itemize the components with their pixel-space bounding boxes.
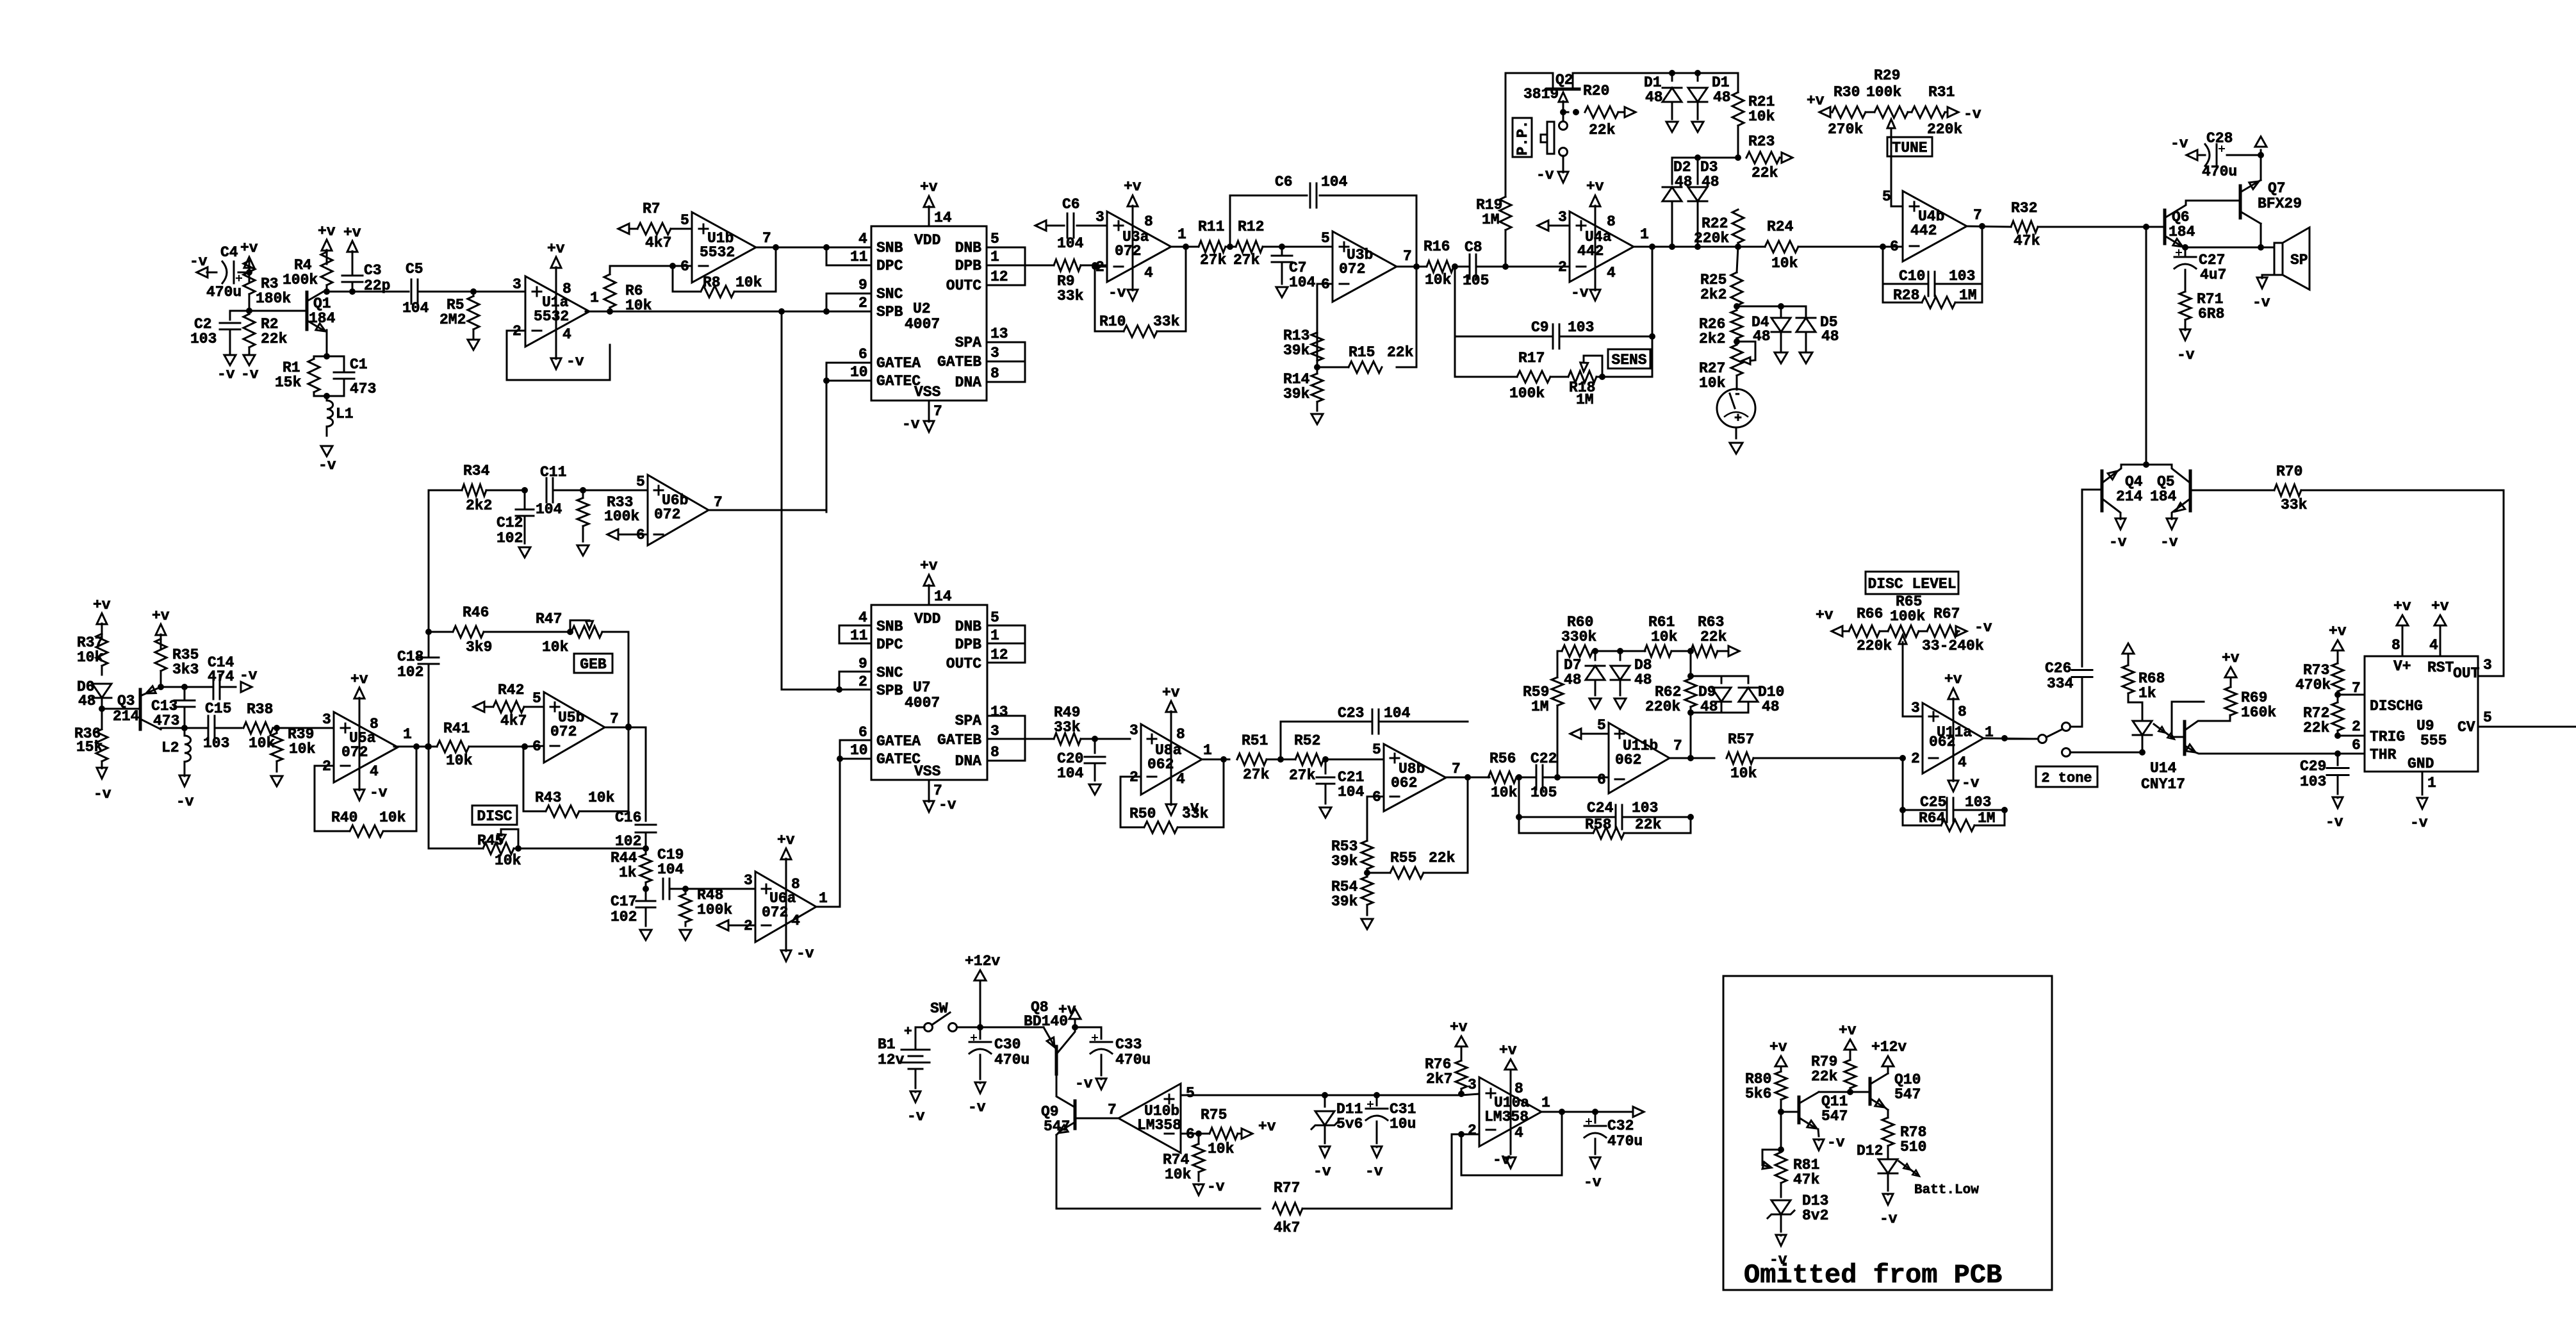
wire SPB down to U7: [781, 311, 783, 690]
power -v below R2: [241, 355, 259, 383]
power arrow below D5: [1800, 352, 1812, 363]
resistor R10: [1099, 313, 1180, 337]
capacitor C12: [496, 490, 534, 547]
svg-text:R41: R41: [443, 720, 470, 737]
svg-text:U2: U2: [913, 301, 931, 317]
svg-text:R34: R34: [463, 463, 490, 479]
potentiometer R45: [429, 829, 646, 869]
svg-text:4: 4: [1607, 265, 1616, 281]
wire R15 to fb: [1397, 267, 1416, 367]
svg-text:+v: +v: [777, 832, 795, 848]
resistor R74: [1163, 1134, 1204, 1183]
off-page arrow at C6: [1035, 220, 1046, 231]
wire U2 GATEA-GATEC bracket: [823, 363, 871, 384]
capacitor C1: [334, 356, 376, 397]
wire U2 DNB-OUTC bracket: [987, 247, 1025, 285]
node R23 row: [1735, 154, 1741, 161]
resistor R11: [1198, 219, 1227, 269]
ground below C7: [1276, 287, 1288, 297]
capacitor C26: [2045, 660, 2092, 723]
svg-text:R28: R28: [1893, 287, 1919, 304]
svg-text:39k: 39k: [1331, 853, 1358, 870]
node D6-R36: [99, 706, 105, 712]
power +v above R35: [152, 608, 170, 649]
svg-text:-v: -v: [1075, 1075, 1093, 1092]
svg-text:C24: C24: [1587, 800, 1614, 816]
power -v below U3a: [1108, 282, 1138, 301]
svg-text:270k: 270k: [1828, 121, 1863, 138]
meter M1: [1717, 387, 1755, 427]
wire pin6 stub: [2338, 737, 2365, 754]
resistor R41: [437, 720, 528, 769]
svg-text:7: 7: [610, 711, 619, 727]
capacitor C3: [342, 262, 390, 294]
svg-text:547: 547: [1044, 1118, 1070, 1135]
power +v above pin8: [2393, 598, 2411, 625]
svg-text:8: 8: [1958, 704, 1967, 720]
resistor R58: [1585, 816, 1691, 839]
svg-text:C5: C5: [406, 261, 423, 277]
svg-text:104: 104: [657, 861, 684, 878]
wire C11 to U6b: [583, 490, 648, 492]
svg-text:6: 6: [680, 258, 689, 275]
svg-text:48: 48: [1702, 174, 1719, 190]
svg-text:10u: 10u: [1390, 1116, 1416, 1132]
svg-text:CV: CV: [2457, 719, 2475, 736]
resistor R44: [611, 848, 652, 889]
svg-text:SPA: SPA: [955, 335, 982, 351]
svg-text:48: 48: [1762, 699, 1780, 715]
wire fb right up: [1981, 226, 1983, 302]
transistor Q8: [1024, 999, 1075, 1074]
wire U3b pin6 stub: [1317, 284, 1333, 367]
svg-text:105: 105: [1530, 784, 1557, 801]
svg-text:470u: 470u: [994, 1052, 1030, 1068]
label U14 CNY17: [2141, 760, 2185, 793]
power +12v above Q10: [1871, 1039, 1907, 1073]
svg-text:2: 2: [858, 674, 867, 690]
wire Q8 collector down: [1056, 1074, 1058, 1092]
wire C8 to U4a pin2: [1502, 263, 1570, 270]
resistor R23: [1746, 133, 1782, 181]
svg-text:+v: +v: [350, 671, 368, 688]
svg-text:-v: -v: [1365, 1163, 1383, 1180]
svg-text:U14: U14: [2150, 760, 2177, 777]
wire C9 down to R18 row: [1652, 336, 1653, 377]
svg-text:+v: +v: [1586, 178, 1604, 195]
resistor R9: [1054, 260, 1107, 304]
svg-text:7: 7: [933, 403, 942, 420]
svg-text:7: 7: [1108, 1102, 1117, 1118]
resistor R55: [1367, 777, 1468, 879]
wire U7 SNB-DPC bracket: [839, 625, 871, 643]
svg-text:072: 072: [341, 744, 368, 761]
svg-text:SW: SW: [930, 1000, 948, 1017]
svg-text:DPC: DPC: [876, 258, 903, 274]
wire U1a feedback: [507, 331, 610, 380]
capacitor C7: [1272, 247, 1316, 291]
svg-text:Q7: Q7: [2268, 180, 2286, 197]
svg-text:DNA: DNA: [955, 374, 982, 391]
svg-text:6: 6: [2352, 737, 2361, 754]
svg-text:R64: R64: [1919, 810, 1946, 827]
svg-text:180k: 180k: [256, 290, 291, 307]
svg-text:473: 473: [153, 713, 179, 729]
node Q4Q5 base: [2143, 461, 2149, 468]
wire pushbutton to -v: [1563, 156, 1564, 169]
wire C6 fb up: [1230, 195, 1416, 247]
svg-text:100k: 100k: [283, 272, 318, 288]
svg-text:R23: R23: [1748, 133, 1775, 150]
svg-text:3: 3: [744, 872, 753, 889]
op-amp U8b: [1372, 741, 1461, 811]
resistor R30: [1828, 84, 1866, 138]
svg-text:-v: -v: [2170, 135, 2188, 152]
resistor R61: [1620, 614, 1694, 657]
ground below C17: [640, 930, 652, 940]
svg-text:15k: 15k: [76, 739, 103, 756]
svg-text:-v: -v: [2252, 294, 2270, 311]
svg-text:5k6: 5k6: [1745, 1086, 1771, 1102]
wire collector row: [327, 291, 409, 293]
svg-text:184: 184: [309, 310, 336, 327]
svg-text:15k: 15k: [275, 374, 302, 391]
resistor R40: [331, 809, 406, 837]
svg-text:+v: +v: [343, 224, 361, 241]
svg-text:R67: R67: [1933, 606, 1960, 622]
svg-text:7: 7: [762, 230, 771, 247]
resistor R22: [1694, 210, 1744, 247]
ground below R54: [1361, 919, 1373, 929]
svg-text:48: 48: [1645, 89, 1663, 106]
power -v below B1: [907, 1091, 925, 1125]
label Batt.Low: [1914, 1183, 1979, 1198]
svg-text:33-240k: 33-240k: [1922, 638, 1984, 654]
svg-text:R55: R55: [1390, 850, 1416, 866]
svg-text:DNB: DNB: [955, 618, 982, 635]
svg-text:474: 474: [208, 668, 234, 685]
svg-text:-v: -v: [907, 1108, 925, 1125]
wire Q6 collector to Q7 base: [2186, 200, 2240, 202]
capacitor C21: [1317, 759, 1365, 804]
svg-text:39k: 39k: [1283, 342, 1310, 359]
wire Q4 base left: [2082, 489, 2102, 491]
svg-text:10k: 10k: [289, 741, 316, 757]
svg-text:13: 13: [990, 704, 1008, 720]
resistor R12: [1233, 219, 1282, 269]
IC U7 right pin labels: [937, 609, 1008, 770]
node U10b pin6: [1181, 1130, 1209, 1137]
svg-text:27k: 27k: [1200, 252, 1227, 269]
off-page arrow U11b pin5: [1570, 729, 1609, 739]
wire R38 to U5a pin3: [277, 727, 334, 729]
svg-text:22k: 22k: [1589, 122, 1616, 138]
svg-text:48: 48: [1634, 672, 1652, 688]
svg-text:3k3: 3k3: [172, 661, 199, 678]
svg-text:1: 1: [990, 627, 999, 644]
svg-text:-v: -v: [1964, 106, 1981, 122]
resistor R75: [1201, 1107, 1242, 1157]
capacitor C20: [1057, 739, 1105, 782]
svg-text:22k: 22k: [1700, 629, 1727, 645]
svg-text:+v: +v: [1816, 607, 1834, 624]
svg-text:C32: C32: [1607, 1118, 1634, 1134]
svg-text:+v: +v: [1258, 1118, 1276, 1135]
diode D9: [1698, 676, 1731, 715]
resistor R68: [2122, 665, 2165, 702]
node R44 bottom: [643, 886, 649, 892]
svg-text:THR: THR: [2370, 747, 2397, 763]
potentiometer R29: [1866, 67, 1908, 203]
svg-text:+v: +v: [240, 240, 258, 256]
svg-text:R56: R56: [1489, 750, 1516, 767]
ground below D8: [1614, 699, 1626, 709]
svg-text:-v: -v: [1974, 619, 1992, 636]
svg-text:470u: 470u: [1115, 1052, 1151, 1068]
resistor R79: [1811, 1050, 1856, 1092]
svg-text:103: 103: [1632, 800, 1658, 816]
resistor R43: [535, 790, 615, 817]
svg-text:4007: 4007: [905, 695, 940, 711]
resistor R31: [1908, 84, 1962, 138]
svg-text:R51: R51: [1242, 732, 1268, 749]
svg-text:3: 3: [1558, 209, 1567, 226]
svg-text:8: 8: [2391, 637, 2400, 654]
resistor R77: [1273, 1134, 1479, 1236]
svg-text:27k: 27k: [1243, 766, 1270, 783]
svg-text:103: 103: [1568, 319, 1594, 336]
svg-text:-v: -v: [1769, 1252, 1787, 1268]
svg-text:6R8: 6R8: [2198, 306, 2224, 322]
svg-text:104: 104: [402, 300, 429, 317]
svg-text:R30: R30: [1834, 84, 1860, 101]
svg-text:1M: 1M: [1978, 810, 1996, 827]
power +v above U3a: [1124, 178, 1142, 286]
svg-text:5532: 5532: [534, 308, 569, 325]
wire L1 to -v: [326, 427, 328, 436]
power +v above U8a: [1162, 684, 1180, 801]
svg-text:12: 12: [990, 269, 1008, 285]
off-page arrow output: [1633, 1107, 1644, 1117]
svg-text:C3: C3: [364, 262, 382, 279]
svg-text:-v: -v: [94, 786, 111, 802]
svg-text:220k: 220k: [1857, 638, 1892, 654]
resistor R16: [1423, 238, 1458, 288]
boxed label SENS: [1608, 349, 1650, 368]
power -v below speaker: [2252, 277, 2270, 311]
wire U7 GATEB to R49: [987, 738, 1054, 740]
svg-text:5: 5: [990, 231, 999, 247]
power -v below D13: [1769, 1235, 1787, 1268]
svg-text:C9: C9: [1531, 319, 1549, 336]
wire U4b out: [1967, 223, 2011, 229]
svg-text:R66: R66: [1857, 606, 1883, 622]
svg-text:C23: C23: [1338, 705, 1364, 722]
svg-text:R12: R12: [1238, 219, 1264, 235]
svg-text:1: 1: [1177, 226, 1186, 243]
resistor R71: [2179, 275, 2224, 329]
svg-text:10k: 10k: [542, 639, 569, 656]
wire DPC link: [826, 247, 871, 265]
resistor R8: [701, 274, 762, 297]
wire U1a out to SPB row: [610, 308, 839, 315]
svg-text:R40: R40: [331, 809, 357, 826]
power -v below C2: [217, 355, 236, 383]
svg-text:3: 3: [1911, 700, 1920, 716]
svg-text:10k: 10k: [446, 752, 473, 769]
potentiometer R47: [536, 611, 628, 656]
wire U5a out: [394, 743, 437, 750]
off-page arrow U6b pin6: [607, 529, 648, 540]
power +v above U5a: [350, 671, 368, 786]
power -v below L1: [318, 446, 336, 474]
svg-text:104: 104: [1289, 274, 1316, 291]
power arrow below D4: [1775, 352, 1787, 363]
svg-text:6: 6: [532, 738, 541, 755]
wire Q2 rail left: [1505, 73, 1553, 89]
svg-text:R38: R38: [247, 701, 273, 718]
power +v above U2: [920, 179, 938, 220]
svg-text:4: 4: [1144, 265, 1153, 281]
resistor R78: [1882, 1118, 1926, 1157]
power -v below R74: [1194, 1178, 1225, 1195]
box omitted from PCB: [1723, 976, 2052, 1290]
svg-text:10k: 10k: [495, 852, 521, 869]
svg-text:GND: GND: [2408, 756, 2434, 772]
svg-text:5: 5: [532, 690, 541, 707]
resistor R13: [1283, 327, 1323, 361]
svg-text:+v: +v: [2329, 623, 2347, 640]
capacitor C6 feedback: [1275, 174, 1348, 208]
ground below R33: [577, 545, 589, 556]
power arrow above C28 node: [2255, 136, 2267, 155]
off-page arrow U4a pin3: [1538, 220, 1570, 231]
svg-text:10k: 10k: [1651, 629, 1678, 645]
power -v below U6a: [781, 942, 814, 962]
resistor R52: [1289, 732, 1384, 784]
svg-text:10k: 10k: [1491, 784, 1518, 801]
svg-text:470k: 470k: [2295, 677, 2331, 693]
transistor Q2 3819: [1523, 72, 1579, 112]
svg-text:10k: 10k: [1165, 1166, 1192, 1183]
power -v below D11: [1313, 1146, 1331, 1180]
svg-text:442: 442: [1910, 222, 1937, 239]
svg-text:4: 4: [791, 913, 800, 929]
resistor R33: [577, 490, 639, 541]
wire pin2 stub: [2338, 718, 2365, 736]
wire U7 SPB row: [782, 689, 839, 691]
svg-text:C6: C6: [1062, 196, 1080, 213]
resistor R39: [271, 726, 316, 772]
svg-text:-v: -v: [176, 793, 194, 810]
svg-text:C33: C33: [1115, 1036, 1142, 1053]
svg-text:3: 3: [513, 276, 521, 293]
power -v below C33: [1075, 1075, 1106, 1092]
svg-text:10k: 10k: [1771, 255, 1798, 272]
svg-text:OUT: OUT: [2453, 665, 2480, 682]
svg-text:48: 48: [1821, 328, 1839, 345]
svg-text:8: 8: [562, 281, 571, 297]
svg-text:47k: 47k: [2014, 233, 2040, 249]
resistor R56: [1488, 750, 1522, 801]
potentiometer R27: [1699, 342, 1755, 392]
svg-text:2: 2: [1558, 259, 1567, 276]
wire U4a out row: [1634, 244, 1741, 250]
svg-text:-v: -v: [1584, 1174, 1602, 1191]
resistor R35: [155, 634, 199, 687]
wire U5b out: [605, 724, 646, 731]
svg-text:C26: C26: [2045, 660, 2071, 677]
node R38-R39: [274, 725, 280, 731]
svg-text:+: +: [904, 1025, 912, 1039]
svg-text:3: 3: [322, 711, 331, 728]
transistor Q4: [2102, 465, 2143, 517]
svg-text:1: 1: [819, 890, 828, 907]
op-amp U5b: [532, 690, 619, 763]
wire C16 column: [645, 727, 647, 821]
svg-text:9: 9: [858, 277, 867, 293]
IC U9 pin 1 GND: [2422, 772, 2436, 795]
svg-text:2: 2: [1911, 750, 1920, 767]
power +12v above C30: [965, 953, 1000, 1027]
resistor R76: [1425, 1046, 1467, 1093]
svg-text:-v: -v: [1108, 285, 1126, 301]
wire R40 loop: [315, 743, 420, 831]
diode D1 right: [1688, 73, 1731, 119]
svg-text:DISCHG: DISCHG: [2370, 698, 2423, 715]
resistor R48: [680, 887, 732, 926]
power -v below U1a: [551, 347, 584, 370]
capacitor C18: [397, 649, 439, 681]
svg-text:4: 4: [1514, 1125, 1523, 1141]
svg-text:R58: R58: [1585, 816, 1611, 833]
svg-text:33k: 33k: [1057, 288, 1084, 304]
svg-text:5: 5: [2483, 709, 2492, 726]
wire U5b fb: [521, 727, 628, 811]
svg-text:12: 12: [990, 647, 1008, 663]
resistor R80: [1745, 1071, 1787, 1115]
svg-text:10k: 10k: [249, 735, 275, 752]
svg-text:TRIG: TRIG: [2370, 729, 2405, 745]
IC U7 center labels: [905, 679, 940, 711]
svg-text:22k: 22k: [1752, 165, 1778, 181]
svg-text:102: 102: [615, 833, 641, 850]
power +v above R76: [1450, 1019, 1468, 1046]
off-page arrow after R23: [1782, 153, 1793, 163]
svg-text:547: 547: [1821, 1108, 1848, 1125]
power -v below U2: [902, 416, 934, 433]
svg-text:BFX29: BFX29: [2258, 195, 2302, 212]
svg-text:5: 5: [1372, 741, 1381, 758]
svg-text:1: 1: [590, 290, 599, 306]
wire -v to C4 row: [190, 253, 217, 272]
svg-text:1: 1: [1541, 1095, 1550, 1111]
svg-text:L2: L2: [161, 740, 179, 756]
node Q2 gate: [1560, 109, 1579, 115]
svg-text:2k2: 2k2: [1699, 331, 1725, 347]
svg-text:DISC: DISC: [477, 808, 512, 825]
wire speaker row: [2182, 244, 2274, 251]
wire speaker to -v: [2262, 275, 2274, 278]
svg-text:3: 3: [1468, 1077, 1477, 1093]
boxed label TUNE: [1887, 137, 1932, 156]
power +v above R68: [2122, 643, 2134, 665]
svg-text:1: 1: [990, 249, 999, 265]
resistor R57: [1727, 731, 1903, 782]
svg-text:+v: +v: [1944, 671, 1962, 688]
inductor L1: [327, 401, 354, 427]
svg-text:3k9: 3k9: [466, 639, 492, 656]
